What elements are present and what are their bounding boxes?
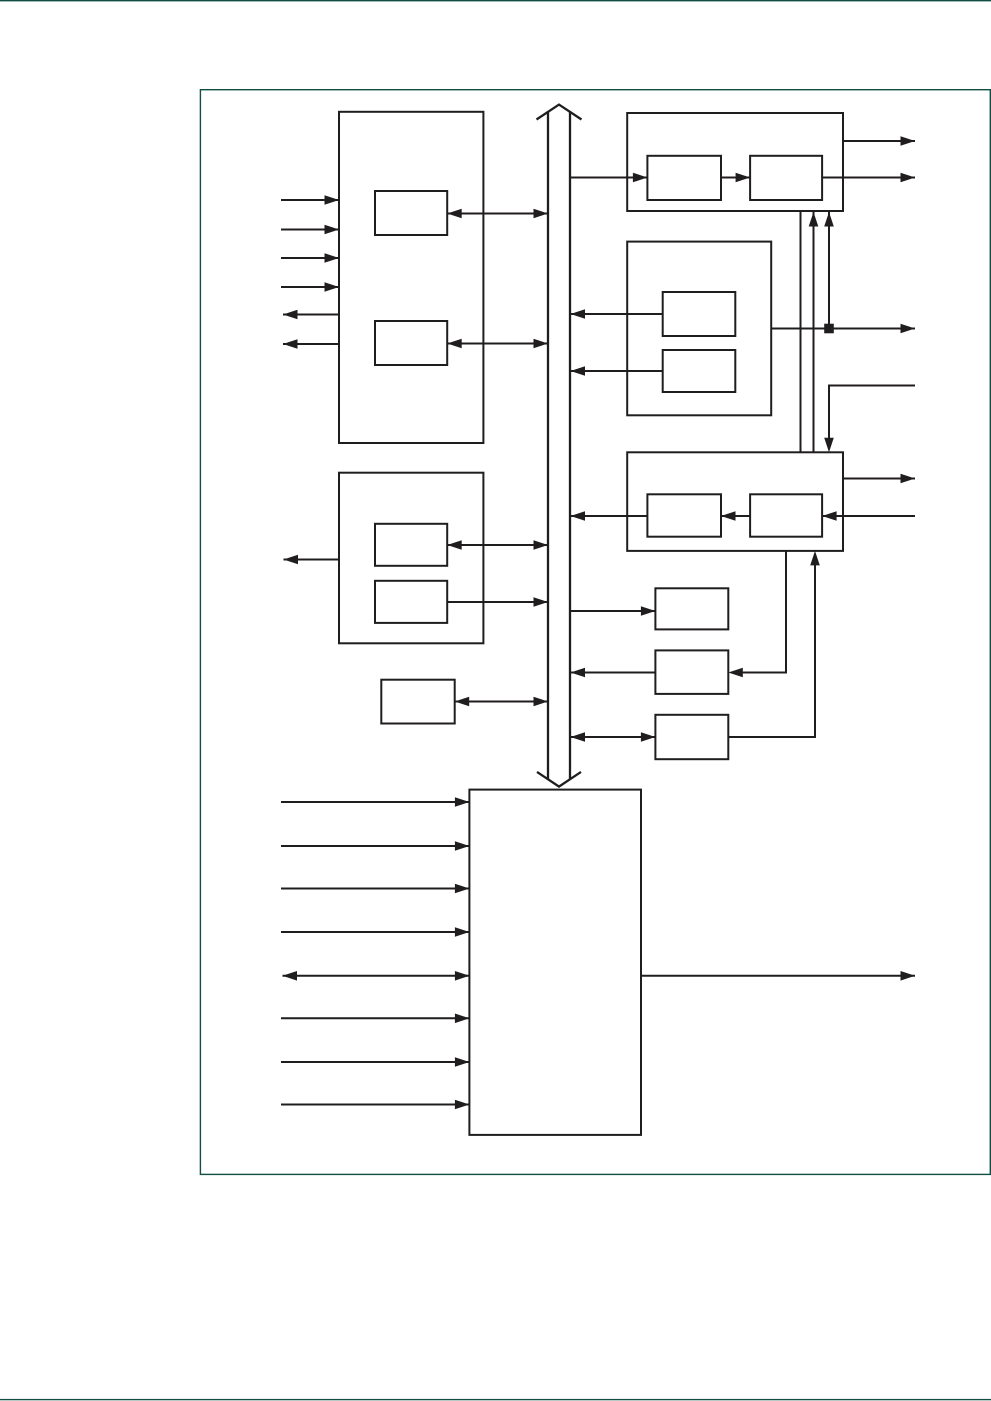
block A (top-left peripheral) (339, 112, 483, 443)
input wire J-in2 (281, 841, 469, 851)
output wire J-out (641, 971, 915, 981)
block I (655, 715, 728, 759)
figure frame (200, 90, 990, 1175)
output wire D-out (843, 474, 915, 484)
output wire C-out (771, 324, 915, 334)
input wire J-in7 (281, 1057, 469, 1067)
sub-block B1 (647, 156, 721, 200)
wire D to H arrowhead (728, 668, 743, 678)
output wire B-out1 (843, 136, 915, 146)
input wire J-in4 (281, 927, 469, 937)
wire D1 to bus (571, 511, 648, 521)
input wire A-in4 (281, 282, 339, 292)
input wire J-in8 (281, 1100, 469, 1110)
block F (small peripheral) (381, 680, 454, 724)
input wire A-in2 (281, 225, 339, 235)
wire E2 to bus (447, 597, 548, 607)
wire D to B (arrow up) (809, 212, 819, 452)
sub-block B2 (750, 156, 822, 200)
input wire J-in5 (bidirectional) (283, 971, 470, 981)
internal bus right rail (569, 112, 571, 780)
block G (655, 588, 728, 629)
wire I to D arrowhead (810, 551, 820, 566)
wire bus to I (bidirectional) (571, 732, 656, 742)
input wire J-in6 (281, 1014, 469, 1024)
internal bus left rail (547, 112, 549, 780)
wire D2 to D1 (721, 511, 750, 521)
output wire E-out (284, 555, 340, 565)
input wire A-in3 (281, 253, 339, 263)
wire A1 to bus (bidirectional) (447, 209, 548, 219)
sub-block C2 (663, 350, 736, 392)
wire C2 to bus (571, 366, 663, 376)
sub-block E1 (375, 524, 447, 566)
wire D to B (plain) (800, 211, 802, 452)
wire H to bus (571, 668, 656, 678)
output wire A-out2 (283, 339, 339, 349)
wire bus to B1 (570, 173, 647, 183)
wire B1 to B2 (721, 173, 750, 183)
wire D to H (elbow) (735, 551, 786, 673)
wire F to bus (bidirectional) (455, 697, 548, 707)
sub-block A1 (375, 191, 447, 235)
sub-block E2 (375, 581, 447, 623)
block J (bottom port block) (469, 790, 641, 1135)
top page rule (0, 0, 991, 1)
input wire to block D arrowhead (824, 438, 834, 453)
block E (mid-left peripheral) (339, 473, 483, 644)
wire C1 to bus (571, 309, 663, 319)
bottom page rule (0, 1399, 991, 1400)
output wire A-out1 (283, 310, 339, 320)
wire E1 to bus (bidirectional) (447, 540, 548, 550)
sub-block D1 (647, 494, 721, 536)
block B (top-right peripheral) (627, 113, 843, 211)
block C (middle-right peripheral) (627, 242, 771, 416)
block D (right peripheral) (627, 452, 843, 551)
sub-block A2 (375, 321, 447, 365)
wire junction to B (arrow up) (824, 212, 834, 329)
junction dot (824, 324, 834, 334)
wire A2 to bus (bidirectional) (447, 339, 548, 349)
input wire to block D (elbow) (829, 386, 915, 446)
sub-block C1 (663, 292, 736, 336)
input wire A-in1 (281, 195, 339, 205)
wire bus to G (570, 606, 655, 616)
wire B2 to output (822, 173, 915, 183)
input wire J-in3 (281, 884, 469, 894)
sub-block D2 (750, 494, 822, 536)
wire I to D (elbow) (728, 558, 815, 737)
input wire J-in1 (281, 797, 469, 807)
input wire to D2 (822, 511, 915, 521)
internal bus bottom arrowhead (537, 772, 581, 787)
block H (655, 650, 728, 694)
internal bus top arrowhead (537, 105, 582, 120)
